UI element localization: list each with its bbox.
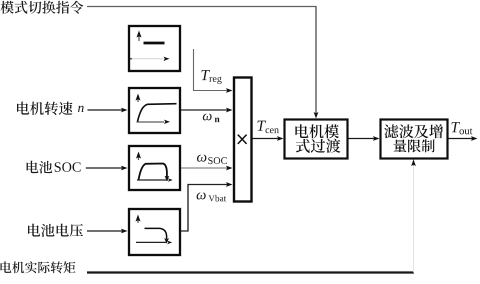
arrowhead omega_Vbat into multiplier: [226, 182, 233, 187]
arrowhead actual-torque into filter block bottom: [411, 160, 416, 167]
wire actual-torque feedback (light vertical): [413, 166, 415, 273]
arrowhead battery-SOC into block C: [121, 166, 128, 171]
arrowhead T_reg into multiplier: [226, 88, 233, 93]
block A x-axis (light) with start dot: [131, 58, 163, 60]
label SOC: [55, 162, 81, 172]
block C curve end arrowhead (down): [165, 176, 170, 182]
wire motor-speed input: [88, 109, 124, 111]
block B y-axis arrow: [137, 98, 139, 102]
block A y-axis arrow: [138, 36, 140, 41]
label 电机实际转矩 (actual motor torque): [0, 261, 75, 273]
block D x-axis arrowhead: [167, 241, 172, 245]
block B box (speed weighting lookup): [129, 88, 180, 133]
wire T_out output: [448, 138, 473, 140]
wire mode-command top line (horizontal): [87, 6, 317, 8]
label 模式切换指令 (mode switch command): [0, 1, 83, 14]
arrowhead motor-speed into block B: [121, 108, 128, 113]
label T_reg: [201, 70, 221, 84]
block B x-axis arrowhead: [164, 120, 170, 124]
block A x-axis arrowhead: [164, 57, 170, 61]
arrowhead into filter block: [373, 136, 380, 141]
arrowhead T_cen into motor-mode-transition: [277, 136, 284, 141]
block C y-axis arrow: [138, 156, 140, 160]
block D curve end arrowhead (down): [164, 238, 169, 244]
wire omega_Vbat from block D (right, up, right): [181, 185, 228, 232]
label 电池 (battery): [27, 161, 53, 174]
label n (motor speed symbol, italic): [78, 106, 84, 112]
label omega_n: [203, 114, 220, 123]
block filter text line2 量限制: [393, 139, 434, 152]
wire T_cen multiplier to motor-mode-transition: [252, 138, 279, 140]
wire battery-SOC input: [86, 167, 123, 169]
block A box (constant-gain lookup): [129, 26, 180, 71]
block D falling curve: [145, 228, 167, 239]
arrowhead into motor-mode-transition top: [314, 112, 319, 119]
block filter-and-increment-limit box: [381, 120, 448, 159]
block A constant level (thick line): [144, 42, 165, 45]
block C x-axis: [137, 179, 168, 181]
wire omega_SOC from block C to multiplier: [181, 167, 228, 169]
block motor-mode-transition box: [285, 120, 348, 159]
label T_cen: [257, 121, 278, 133]
label 电池电压 (battery voltage): [28, 224, 83, 237]
label omega_SOC: [197, 155, 227, 165]
wire actual-torque bottom line: [87, 271, 414, 273]
multiplier block box: [234, 78, 252, 202]
wire battery-voltage input: [87, 230, 123, 232]
block D y-axis arrow: [137, 219, 139, 223]
wire T_reg (vertical then horizontal into multiplier): [194, 49, 229, 91]
wire motor-mode-transition to filter block: [348, 138, 375, 140]
block C box (SOC weighting lookup): [129, 146, 180, 190]
multiplier x symbol: [238, 135, 247, 144]
wire omega_n from block B to multiplier: [181, 109, 228, 111]
wire mode-command top line (vertical drop): [315, 7, 317, 115]
block D x-axis: [136, 241, 167, 243]
label omega_Vbat: [197, 193, 227, 202]
label T_out: [451, 122, 472, 134]
block motor-mode-transition text line2 式过渡: [296, 139, 341, 153]
label 电机转速 (motor speed): [17, 102, 73, 115]
block motor-mode-transition text line1 电机模: [295, 124, 339, 138]
arrowhead omega_n into multiplier: [226, 108, 233, 113]
arrowhead omega_SOC into multiplier: [226, 166, 233, 171]
block C trapezoid curve: [139, 164, 167, 181]
arrowhead battery-voltage into block D: [121, 229, 128, 234]
block D box (voltage weighting lookup): [129, 209, 180, 255]
block B x-axis: [137, 121, 165, 123]
block filter text line1 滤波及增: [384, 124, 443, 138]
arrowhead T_out output: [471, 136, 478, 141]
block B saturation curve: [138, 104, 177, 122]
block C x-axis arrowhead: [168, 178, 173, 182]
